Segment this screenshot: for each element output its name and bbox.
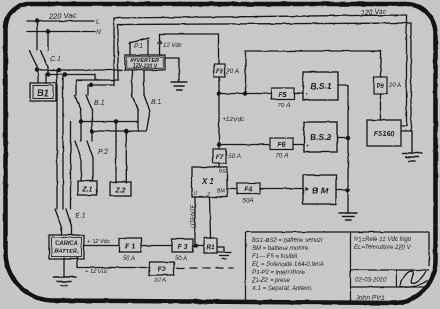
charger FS160	[367, 120, 401, 146]
wire Z2 feed 2	[125, 131, 127, 183]
wire bus 2 (changeover out)	[92, 130, 147, 132]
wire blade2 out	[91, 110, 93, 141]
node bus2 left	[90, 129, 93, 132]
wire C1 out 2	[47, 67, 49, 75]
wire B1 box stub 1	[37, 70, 39, 83]
wire inverter stub 1	[131, 70, 133, 95]
wire blade out right 1	[137, 111, 139, 122]
wire negative bus	[347, 85, 349, 213]
wire inverter line 2 left drop	[76, 25, 118, 96]
node bus1 left	[79, 120, 82, 123]
wire F5 row	[219, 93, 271, 95]
wire left feeder 3	[70, 122, 72, 209]
ground battery bus	[339, 213, 357, 220]
wire inverter line 1 top	[114, 15, 407, 18]
wire F9 to junctions	[218, 77, 220, 149]
wire left feeder 2	[62, 75, 64, 210]
wire inverter line 1 left drop	[88, 18, 114, 95]
charger CARICA BATTER	[49, 235, 84, 259]
fuse F3	[172, 239, 193, 262]
switch P1	[129, 38, 149, 55]
wire inverter 12V feed	[159, 34, 161, 55]
wire inverter line 2 top	[118, 23, 411, 25]
wire bus A	[37, 69, 122, 71]
legend text left column	[251, 238, 324, 292]
wire bus 1 (changeover out)	[81, 122, 138, 132]
wire charge rect	[246, 51, 381, 94]
wire F1 to F3	[141, 245, 172, 247]
wire E1 out 1	[61, 226, 63, 235]
wire F2 out dashed	[177, 267, 233, 269]
wire Z1 feed 1	[80, 158, 82, 181]
switch B1 left pole 2	[86, 95, 92, 110]
node bus B 2	[63, 73, 66, 76]
wire inverter stub 2	[143, 70, 145, 95]
wire X1 BM pin to F4	[227, 188, 237, 190]
wire X1 Z pin to R1	[210, 197, 211, 239]
ground FS160	[402, 131, 422, 161]
ground inverter	[171, 82, 187, 90]
wire inverter line 2 right drop	[401, 23, 411, 131]
legend divider	[350, 232, 352, 302]
wire F5 to BS1	[294, 93, 303, 95]
title block dividers	[351, 270, 430, 287]
node jog 1	[90, 84, 93, 87]
wire F6 to BS2	[293, 144, 304, 146]
wire BM to bus	[336, 189, 348, 191]
node U junction	[195, 244, 198, 247]
battery BS1	[303, 72, 338, 100]
wire Z1 feed 2	[92, 158, 94, 181]
wire charger 12V out	[84, 245, 119, 247]
socket Z1	[78, 181, 97, 195]
switch B1 left pole 1	[75, 95, 82, 110]
relay R1	[204, 238, 217, 253]
node BS2 bus	[346, 136, 349, 139]
ground charger	[53, 277, 76, 286]
wire blade out right 2	[147, 111, 151, 131]
wire F6 row	[219, 144, 270, 146]
switch E1 pole 1	[55, 209, 62, 226]
battery BM	[303, 175, 336, 204]
wire R1 ground lead	[217, 247, 224, 252]
node F6 junction	[217, 143, 220, 146]
node charge tap	[244, 92, 247, 95]
wire X1 U pin down	[194, 197, 196, 246]
switch B1 right pole 2	[144, 95, 150, 111]
wire P9 to FS160	[380, 94, 382, 120]
wire bus B	[48, 75, 101, 81]
separator X1	[192, 167, 227, 198]
fuse P9	[374, 77, 401, 94]
label 12 Vdc with arrow	[158, 40, 162, 44]
legend box	[246, 232, 430, 302]
node bus1 Z tap	[114, 120, 117, 123]
wire F4 to BM	[260, 188, 303, 190]
fuse F7	[213, 149, 241, 163]
node bus A 2	[57, 68, 60, 71]
fuse F4	[237, 183, 260, 205]
switch P2 pole 1	[75, 141, 81, 158]
ground R1	[217, 252, 231, 259]
device B1 (box)	[30, 83, 56, 101]
wire BS1 to bus	[338, 84, 348, 86]
node bus A	[35, 68, 38, 71]
wire inverter line 1 right drop	[401, 15, 407, 126]
wire P2 feed 1	[80, 122, 82, 142]
wire L line	[27, 20, 94, 22]
switch C1 pole 2	[41, 51, 49, 67]
wire F3 to R1	[193, 245, 204, 247]
wire charger ground lead	[63, 258, 65, 277]
socket Z2	[110, 182, 131, 196]
node bus B	[46, 73, 49, 76]
battery BS2	[304, 122, 337, 152]
node N tap	[46, 30, 49, 33]
title block signature	[399, 271, 428, 287]
wire Z2 feed 1	[115, 122, 117, 184]
wire blade1 out	[80, 110, 82, 122]
wire 12V to F9	[160, 34, 219, 64]
fuse F1	[119, 238, 141, 262]
wire left feeder 1	[56, 70, 58, 209]
switch C1 pole 1	[30, 51, 38, 67]
wire B1 box stub 2	[45, 75, 47, 84]
legend text right column	[354, 237, 412, 251]
wire E1 out 2	[71, 226, 73, 235]
wire N line	[27, 31, 95, 33]
wire BS2 to bus	[337, 137, 348, 139]
fuse F9	[214, 64, 239, 77]
switch E1 pole 2	[66, 209, 72, 226]
wire L drop	[36, 21, 38, 50]
wire charger second 12V out	[77, 258, 149, 268]
wire F7 to X1	[218, 163, 220, 167]
wire N drop	[47, 32, 49, 51]
switch P2 pole 2	[87, 141, 93, 158]
switch B1 right pole 1	[132, 95, 138, 111]
wire inverter ground lead	[165, 58, 179, 82]
fuse F6	[270, 138, 293, 160]
node L tap	[35, 19, 38, 22]
wire C1 out 1	[36, 67, 38, 71]
inverter U1	[125, 55, 165, 70]
fuse F2	[149, 262, 174, 284]
node BM bus	[346, 188, 349, 191]
node F5 junction	[217, 92, 220, 95]
fuse F5	[271, 88, 294, 110]
node bus2 Z tap	[125, 129, 128, 132]
